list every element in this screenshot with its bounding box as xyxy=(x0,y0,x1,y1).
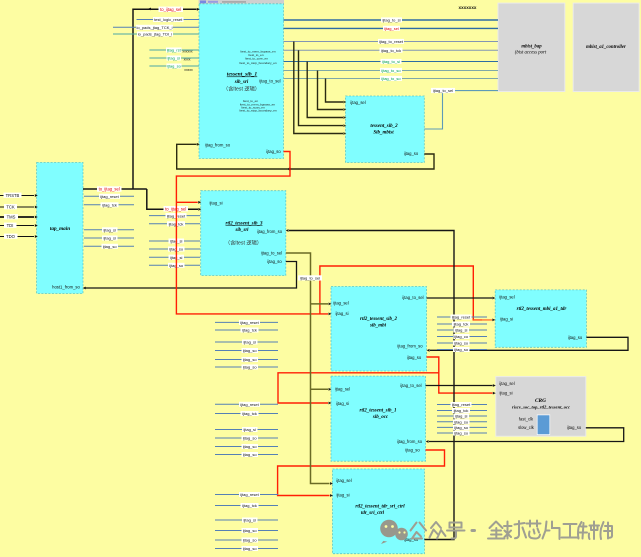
svg-text:ijtag_tck: ijtag_tck xyxy=(242,411,257,416)
svg-text:ijtag_so: ijtag_so xyxy=(407,355,422,360)
svg-text:ijtag_reset: ijtag_reset xyxy=(240,402,259,407)
node TCK xyxy=(4,204,17,209)
node TDO xyxy=(4,234,18,239)
svg-text:ijtag_so: ijtag_so xyxy=(404,151,419,156)
node ijtag_si sib3 xyxy=(169,239,185,244)
svg-text:ijtag_so: ijtag_so xyxy=(568,335,583,340)
block U4 rtl2_tessent_sib_3 sib_sri xyxy=(201,191,286,276)
wire sib_1 right bus to mbist_bap xyxy=(284,20,499,79)
svg-text:ijtag_so: ijtag_so xyxy=(454,425,469,430)
wire tap outputs ijtag_reset/tck xyxy=(84,196,134,246)
node group R1 floating labels left of a1_tdr xyxy=(437,315,487,353)
node ijtag_to_sel white xyxy=(431,88,455,93)
node io_pads_jtag_TCK_i xyxy=(136,25,173,30)
svg-text:ijtag_tck: ijtag_tck xyxy=(242,328,257,333)
node group A floating labels left of sib_2 xyxy=(215,320,278,370)
svg-text:ltest_to_stop_boundary_en: ltest_to_stop_boundary_en xyxy=(239,109,277,113)
svg-text:ijtag_so: ijtag_so xyxy=(454,347,469,352)
node ijtag_so xyxy=(102,244,119,249)
node TRSTB xyxy=(4,193,22,198)
svg-text:ijtag_so: ijtag_so xyxy=(103,244,118,249)
node ijtag_so sib3 xyxy=(168,247,185,252)
svg-text:mbist_a1_controller: mbist_a1_controller xyxy=(586,45,626,50)
node ijtag_reset sib3 xyxy=(166,213,187,218)
node group C floating labels left of tdr_sri_ctrl xyxy=(215,492,278,551)
svg-text:ijtag_so: ijtag_so xyxy=(454,431,469,436)
wire sib_3 so to tap host1_from_so xyxy=(83,262,297,290)
svg-text:ijtag_tck: ijtag_tck xyxy=(454,322,469,327)
svg-text:ijtag_to_sel: ijtag_to_sel xyxy=(259,79,280,84)
wire red si chain from tessent_sib_1 so xyxy=(176,152,482,320)
svg-text:（含ltest 逻辑）: （含ltest 逻辑） xyxy=(223,85,260,93)
block U7 rtl2_tessent_sib_1 sib_occ xyxy=(331,376,426,461)
svg-text:ijtag_si: ijtag_si xyxy=(103,228,116,233)
svg-text:ijtag_so: ijtag_so xyxy=(405,448,420,453)
svg-text:ijtag_reset: ijtag_reset xyxy=(240,320,259,325)
svg-text:(bist access port: (bist access port xyxy=(515,51,547,56)
svg-text:ijtag_sel: ijtag_sel xyxy=(350,100,366,105)
svg-text:to_ijtag_sel: to_ijtag_sel xyxy=(160,7,181,12)
svg-text:ijtag_to_si: ijtag_to_si xyxy=(382,59,400,64)
svg-text:ijtag_si: ijtag_si xyxy=(499,391,512,396)
wire to_ijtag_sel net from tap_main xyxy=(83,9,198,209)
svg-text:ijtag_to_sel: ijtag_to_sel xyxy=(433,88,453,93)
svg-text:ijtag_from_so: ijtag_from_so xyxy=(397,344,423,349)
svg-text:io_pads_jtag_TDI_i: io_pads_jtag_TDI_i xyxy=(138,32,173,37)
svg-text:ijtag_so: ijtag_so xyxy=(243,546,258,551)
svg-text:ltest_to_stop_boundary_en: ltest_to_stop_boundary_en xyxy=(239,61,277,65)
svg-text:rtl2_tessent_sib_2: rtl2_tessent_sib_2 xyxy=(360,317,397,322)
node ijtag_to_tck xyxy=(380,48,403,53)
node ijtag_si xyxy=(102,227,118,232)
svg-text:ijtag_si: ijtag_si xyxy=(455,328,468,333)
svg-text:ijtag_to_sel: ijtag_to_sel xyxy=(261,250,282,255)
svg-text:ijtag_sel: ijtag_sel xyxy=(336,478,352,483)
svg-text:rtl2_tessent_sib_1: rtl2_tessent_sib_1 xyxy=(360,409,397,414)
node ijtag_si sib3b xyxy=(169,255,185,260)
svg-text:ijtag_so: ijtag_so xyxy=(267,259,282,264)
node ijtag_to_sel on olive xyxy=(298,275,322,280)
node ijtag_so top xyxy=(167,64,194,72)
svg-text:slow_clk: slow_clk xyxy=(518,425,535,430)
wire branch drops into tessent_sib_2 xyxy=(294,42,343,134)
wire tessent_sib_2 to_sel to mbist_bap xyxy=(424,91,498,129)
svg-text:ijtag_so: ijtag_so xyxy=(243,452,258,457)
svg-text:ijtag_to_so: ijtag_to_so xyxy=(381,76,401,81)
svg-text:ijtag_so: ijtag_so xyxy=(243,444,258,449)
watermark wechat icon xyxy=(380,520,408,544)
svg-text:ijtag_si: ijtag_si xyxy=(243,518,256,523)
svg-text:ijtag_from_so: ijtag_from_so xyxy=(257,229,283,234)
block U8 rtl2_tessent_tdr_sri_ctrl xyxy=(333,469,425,554)
svg-text:tessent_sib_2: tessent_sib_2 xyxy=(370,124,398,129)
svg-text:sib_mbi: sib_mbi xyxy=(369,324,387,329)
svg-text:ijtag_rst: ijtag_rst xyxy=(167,48,182,53)
svg-text:fast_clk: fast_clk xyxy=(519,417,534,422)
svg-text:tap_main: tap_main xyxy=(50,226,70,232)
svg-text:ijtag_si: ijtag_si xyxy=(335,311,348,316)
block CRG xyxy=(496,377,586,437)
wire orange si stub into a1_tdr xyxy=(473,319,495,322)
svg-text:rtl2_tessent_mbi_a1_tdr: rtl2_tessent_mbi_a1_tdr xyxy=(517,307,567,312)
node to_ijtag_sel (sib_3 input) xyxy=(164,206,189,211)
svg-text:tessent_sib_1: tessent_sib_1 xyxy=(227,72,258,78)
svg-text:ijtag_so: ijtag_so xyxy=(243,436,258,441)
svg-text:ijtag_so: ijtag_so xyxy=(567,425,582,430)
svg-text:ijtag_si: ijtag_si xyxy=(500,316,513,321)
svg-text:to_ijtag_sel: to_ijtag_sel xyxy=(99,187,120,192)
svg-text:sib_sri: sib_sri xyxy=(234,80,249,85)
wire long return tdr so to sib_3 from_so xyxy=(286,229,454,539)
node ijtag_tck xyxy=(101,202,119,207)
svg-text:ijtag_to_si: ijtag_to_si xyxy=(382,18,400,23)
svg-text:ijtag_so: ijtag_so xyxy=(454,341,469,346)
svg-text:ijtag_so: ijtag_so xyxy=(167,64,182,69)
node ijtag_to_si xyxy=(381,17,402,22)
svg-text:ijtag_si: ijtag_si xyxy=(209,201,222,206)
wire tap inputs TRSTB TCK TMS TDI TDO xyxy=(0,196,34,237)
svg-text:xxxxxxx: xxxxxxx xyxy=(459,5,477,10)
svg-text:ijtag_tck: ijtag_tck xyxy=(242,503,257,508)
svg-text:xxxx: xxxx xyxy=(184,58,191,62)
node ijtag_to_so green2 xyxy=(380,76,402,81)
svg-text:ijtag_si: ijtag_si xyxy=(103,236,116,241)
svg-text:ijtag_so: ijtag_so xyxy=(266,149,281,154)
node group B floating labels left of sib_1 xyxy=(215,402,278,457)
svg-text:ijtag_to_reset: ijtag_to_reset xyxy=(379,39,404,44)
svg-text:ijtag_to_tck: ijtag_to_tck xyxy=(381,48,401,53)
node ijtag_reset xyxy=(99,194,120,199)
node ijtag_si top xyxy=(167,56,191,62)
svg-text:ijtag_si: ijtag_si xyxy=(455,414,468,419)
window titlebar fragment xyxy=(199,0,284,4)
node ijtag_so sib3b xyxy=(168,263,185,268)
node ijtag_si2 xyxy=(102,236,118,241)
node ijtag_to_si green xyxy=(381,59,402,64)
svg-text:ijtag_si: ijtag_si xyxy=(167,56,180,61)
svg-text:ijtag_from_so: ijtag_from_so xyxy=(397,439,423,444)
svg-text:ijtag_co: ijtag_co xyxy=(454,334,469,339)
svg-text:ijtag_reset: ijtag_reset xyxy=(452,402,471,407)
node to_ijtag_sel (sib_1 top input) xyxy=(159,7,184,12)
wire sib_1occ to_sel to CRG sel xyxy=(426,384,496,387)
svg-text:ijtag_to_sel: ijtag_to_sel xyxy=(402,295,423,300)
svg-text:ijtag_so: ijtag_so xyxy=(243,528,258,533)
svg-text:ijtag_si: ijtag_si xyxy=(243,427,256,432)
node ijtag_to_so green xyxy=(380,68,402,73)
svg-text:xxxxx: xxxxx xyxy=(184,68,193,72)
svg-text:ijtag_tck: ijtag_tck xyxy=(454,408,469,413)
block U6 rtl2_tessent_mbi_a1_tdr xyxy=(495,290,586,347)
wire sib_2 to_sel to a1_tdr sel xyxy=(427,297,496,300)
svg-text:ijtag_so: ijtag_so xyxy=(243,365,258,370)
svg-text:ijtag_so: ijtag_so xyxy=(243,348,258,353)
svg-text:tdr_sri_ctrl: tdr_sri_ctrl xyxy=(361,511,385,516)
svg-text:TMS: TMS xyxy=(7,214,16,219)
wire tessent_sib_2 so to tessent_sib_1 from_so xyxy=(177,143,434,171)
svg-text:mbist_bap: mbist_bap xyxy=(521,45,542,50)
wire olive to_sel distribution from sib_3 xyxy=(286,253,330,484)
node ijtag_rst xyxy=(166,48,193,54)
svg-text:ijtag_sel: ijtag_sel xyxy=(333,301,349,306)
svg-text:ijtag_reset: ijtag_reset xyxy=(100,194,119,199)
svg-text:rtl2_tessent_sib_3: rtl2_tessent_sib_3 xyxy=(226,221,263,226)
svg-text:rtl2_tessent_tdr_sri_ctrl: rtl2_tessent_tdr_sri_ctrl xyxy=(355,505,405,510)
svg-text:sib_occ: sib_occ xyxy=(372,415,389,420)
svg-text:ijtag_reset: ijtag_reset xyxy=(240,492,259,497)
svg-text:ijtag_si: ijtag_si xyxy=(336,492,349,497)
node ijtag_tck sib3 xyxy=(167,221,185,226)
svg-text:riscv_soc_top_rtl2_tessent_occ: riscv_soc_top_rtl2_tessent_occ xyxy=(512,404,570,409)
block U5 rtl2_tessent_sib_2 sib_mbi xyxy=(331,287,427,372)
node TDI xyxy=(4,223,17,228)
block U3 tap_main xyxy=(37,163,83,294)
node ijtag_to_reset xyxy=(378,39,404,44)
block mbist_a1_controller xyxy=(573,3,639,91)
svg-text:ijtag_si: ijtag_si xyxy=(336,401,349,406)
svg-text:TCK: TCK xyxy=(6,204,15,209)
node group R2 floating labels left of CRG xyxy=(437,402,487,436)
wire a1_tdr so to sib_2 from_so xyxy=(427,337,628,351)
node to_ijtag_sel (tap output) xyxy=(97,186,122,191)
node test_logic_reset xyxy=(153,17,184,22)
svg-text:ijtag_sel: ijtag_sel xyxy=(384,26,399,31)
node io_pads_jtag_TDI_i xyxy=(137,32,173,37)
svg-text:sib_sri: sib_sri xyxy=(234,228,249,233)
node TMS xyxy=(4,214,18,219)
svg-text:ijtag_reset: ijtag_reset xyxy=(452,315,471,320)
block mbist_bap xyxy=(498,3,565,91)
node ijtag_sel red xyxy=(383,26,400,31)
svg-text:TDO: TDO xyxy=(6,234,16,239)
clock mux icon xyxy=(537,415,550,435)
svg-text:ijtag_si: ijtag_si xyxy=(243,340,256,345)
svg-text:Sib_mbist: Sib_mbist xyxy=(373,131,394,136)
svg-text:xxxxxx: xxxxxx xyxy=(182,50,192,54)
watermark text 公众号 全栈芯片工程师 xyxy=(411,521,613,540)
svg-text:io_pads_jtag_TCK_i: io_pads_jtag_TCK_i xyxy=(136,25,172,30)
block U1 tessent_sib_1 sib_sri xyxy=(199,4,284,159)
block U2 tessent_sib_2 sib_mbist xyxy=(346,96,425,163)
svg-text:ijtag_so: ijtag_so xyxy=(243,357,258,362)
wire sib_3 left inputs xyxy=(149,216,200,266)
wire red sib_2 so to sib_1 si and CRG si xyxy=(278,357,493,403)
svg-text:ijtag_sel: ijtag_sel xyxy=(499,381,515,386)
wire CRG so to sib_1 from_so xyxy=(426,428,624,443)
svg-text:ijtag_from_so: ijtag_from_so xyxy=(205,143,231,148)
svg-text:TDI: TDI xyxy=(7,223,14,228)
svg-text:ijtag_sel: ijtag_sel xyxy=(499,294,515,299)
svg-text:ijtag_to_so: ijtag_to_so xyxy=(381,68,401,73)
svg-text:TRSTB: TRSTB xyxy=(6,193,20,198)
svg-text:（含ltest 逻辑）: （含ltest 逻辑） xyxy=(225,239,262,247)
svg-text:ijtag_tck: ijtag_tck xyxy=(102,203,117,208)
svg-text:ijtag_to_sel: ijtag_to_sel xyxy=(300,276,320,281)
wire red sib_1 so to tdr_sri_ctrl si xyxy=(278,450,445,497)
svg-text:ijtag_so: ijtag_so xyxy=(243,538,258,543)
svg-text:ijtag_so: ijtag_so xyxy=(454,420,469,425)
wire sib_1 top inputs xyxy=(113,20,199,28)
svg-text:test_logic_reset: test_logic_reset xyxy=(154,17,183,22)
svg-text:CRG: CRG xyxy=(535,398,546,404)
svg-text:host1_from_so: host1_from_so xyxy=(52,285,80,290)
svg-text:ijtag_to_sel: ijtag_to_sel xyxy=(400,383,421,388)
svg-text:ijtag_sel: ijtag_sel xyxy=(335,387,351,392)
node xxxxxxx annotation top xyxy=(459,5,477,10)
